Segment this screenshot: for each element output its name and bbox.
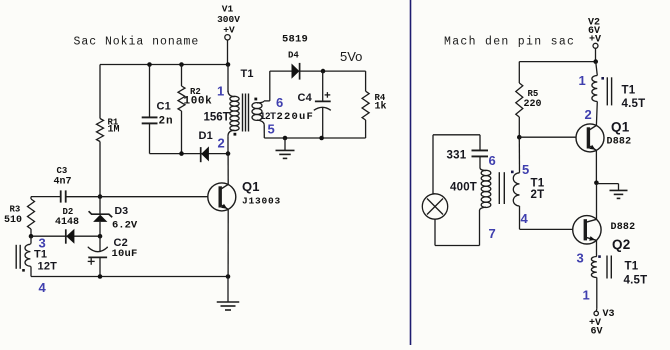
svg-text:4.5T: 4.5T <box>622 98 646 110</box>
svg-text:D2: D2 <box>63 207 74 217</box>
svg-text:C1: C1 <box>157 101 171 113</box>
svg-text:12T: 12T <box>260 111 276 122</box>
svg-text:3: 3 <box>577 251 584 266</box>
svg-text:T1: T1 <box>531 178 545 190</box>
svg-text:J13003: J13003 <box>242 196 281 207</box>
svg-text:C3: C3 <box>57 166 68 176</box>
svg-text:R3: R3 <box>10 205 21 215</box>
svg-text:1: 1 <box>579 73 586 88</box>
svg-text:2n: 2n <box>159 116 174 128</box>
svg-text:1M: 1M <box>108 125 120 136</box>
svg-text:T1: T1 <box>241 68 254 80</box>
svg-text:5Vo: 5Vo <box>340 49 362 64</box>
svg-text:D3: D3 <box>115 205 129 217</box>
svg-text:C4: C4 <box>298 92 313 104</box>
svg-text:5: 5 <box>268 122 275 137</box>
svg-text:T1: T1 <box>34 248 47 260</box>
svg-text:100k: 100k <box>184 96 213 108</box>
svg-text:6: 6 <box>489 153 496 168</box>
svg-text:V3: V3 <box>603 309 615 320</box>
svg-text:6.2V: 6.2V <box>112 219 138 231</box>
svg-text:2: 2 <box>218 136 225 151</box>
svg-text:D1: D1 <box>199 130 213 142</box>
svg-text:12T: 12T <box>38 261 58 273</box>
svg-text:7: 7 <box>489 226 496 241</box>
svg-text:1: 1 <box>217 84 224 99</box>
svg-text:10uF: 10uF <box>112 248 138 260</box>
svg-text:510: 510 <box>4 215 22 226</box>
svg-text:D882: D882 <box>611 222 636 233</box>
svg-text:220: 220 <box>524 99 542 110</box>
svg-text:Q1: Q1 <box>611 120 630 135</box>
svg-text:331: 331 <box>447 150 467 162</box>
svg-text:5819: 5819 <box>282 34 308 46</box>
svg-text:156T: 156T <box>204 111 230 123</box>
svg-text:T1: T1 <box>625 261 639 273</box>
svg-text:6V: 6V <box>591 327 603 338</box>
svg-text:6: 6 <box>276 95 283 110</box>
svg-text:D882: D882 <box>607 137 632 148</box>
svg-text:4148: 4148 <box>55 217 79 228</box>
svg-text:Q1: Q1 <box>242 179 260 194</box>
svg-text:400T: 400T <box>450 181 477 193</box>
svg-text:D4: D4 <box>288 51 299 61</box>
svg-text:5: 5 <box>522 162 529 177</box>
svg-text:4.5T: 4.5T <box>624 275 648 287</box>
svg-text:220uF: 220uF <box>277 111 315 123</box>
svg-text:+V: +V <box>223 25 235 36</box>
svg-text:1k: 1k <box>375 101 387 113</box>
svg-text:2T: 2T <box>531 189 545 201</box>
svg-text:Mach den pin sac: Mach den pin sac <box>444 35 575 48</box>
svg-text:300V: 300V <box>217 14 240 25</box>
svg-text:1: 1 <box>583 288 590 303</box>
svg-text:4n7: 4n7 <box>54 177 72 188</box>
svg-text:V1: V1 <box>222 3 234 14</box>
svg-text:4: 4 <box>39 280 47 295</box>
svg-text:4: 4 <box>521 211 529 226</box>
svg-text:Q2: Q2 <box>612 237 630 252</box>
svg-text:R5: R5 <box>528 89 539 99</box>
svg-text:Sac Nokia noname: Sac Nokia noname <box>74 35 200 48</box>
svg-text:2: 2 <box>585 107 592 122</box>
svg-text:T1: T1 <box>622 85 636 97</box>
